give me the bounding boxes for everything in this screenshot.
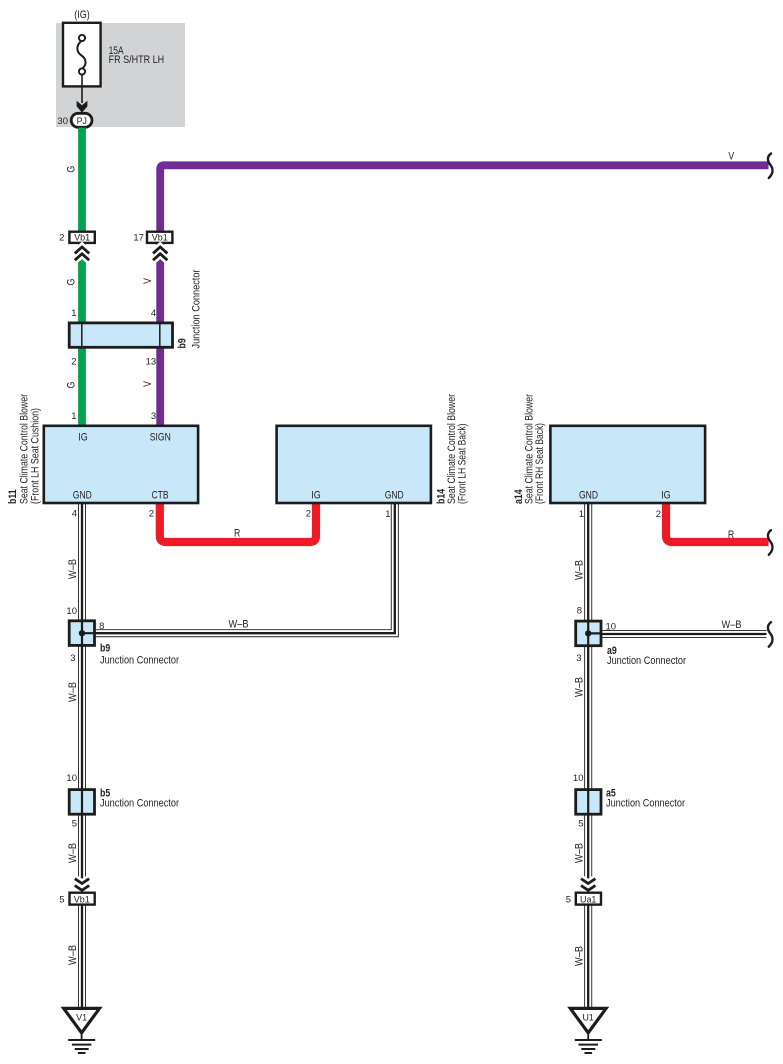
wire W-B from b14 GND to b9 xyxy=(95,502,395,633)
svg-text:2: 2 xyxy=(656,509,661,520)
svg-text:Junction Connector: Junction Connector xyxy=(191,269,203,348)
svg-text:U1: U1 xyxy=(583,1013,594,1024)
wire R left (CTB to IG of b14) xyxy=(160,501,316,542)
wire W-B right column xyxy=(584,502,592,1010)
wire G vertical xyxy=(78,128,86,427)
gray fuse panel xyxy=(56,23,185,127)
svg-text:Junction Connector: Junction Connector xyxy=(100,654,179,666)
junction connector b9 (top bar) xyxy=(69,269,202,348)
wire V vertical + horizontal xyxy=(160,165,768,426)
svg-text:W–B: W–B xyxy=(67,945,79,965)
svg-text:R: R xyxy=(728,529,734,541)
svg-text:V1: V1 xyxy=(76,1013,87,1024)
junction connector a9 (square) xyxy=(576,621,687,667)
svg-text:V: V xyxy=(142,381,154,387)
break mark R wire xyxy=(768,530,773,555)
svg-text:(Front LH Seat Cushion): (Front LH Seat Cushion) xyxy=(30,408,42,504)
svg-text:10: 10 xyxy=(573,773,584,784)
svg-text:10: 10 xyxy=(66,606,77,617)
svg-text:3: 3 xyxy=(576,653,581,664)
svg-text:IG: IG xyxy=(78,431,88,443)
svg-text:(IG): (IG) xyxy=(74,9,90,21)
svg-text:Vb1: Vb1 xyxy=(74,895,90,906)
svg-text:W–B: W–B xyxy=(573,946,585,966)
svg-text:1: 1 xyxy=(579,509,584,520)
svg-text:G: G xyxy=(66,166,78,173)
wire W-B left column xyxy=(78,502,86,1010)
svg-text:W–B: W–B xyxy=(573,677,585,697)
svg-text:Vb1: Vb1 xyxy=(152,232,168,243)
svg-text:8: 8 xyxy=(99,621,104,632)
connector Ua1 pin5 xyxy=(576,893,601,905)
svg-text:IG: IG xyxy=(661,489,671,501)
svg-text:W–B: W–B xyxy=(722,619,742,631)
svg-text:GND: GND xyxy=(73,489,92,501)
svg-text:b11: b11 xyxy=(7,489,19,504)
svg-text:2: 2 xyxy=(71,357,76,368)
svg-text:PJ: PJ xyxy=(77,116,88,127)
svg-text:W–B: W–B xyxy=(67,843,79,863)
svg-text:5: 5 xyxy=(59,895,64,906)
junction connector b5 (square) xyxy=(69,788,179,815)
svg-text:30: 30 xyxy=(57,116,68,127)
break mark V wire xyxy=(768,154,773,179)
svg-text:1: 1 xyxy=(71,308,76,319)
svg-text:13: 13 xyxy=(146,357,157,368)
break mark W-B wire xyxy=(768,622,773,647)
svg-text:R: R xyxy=(234,528,240,540)
svg-text:3: 3 xyxy=(151,411,156,422)
ECU box b14 Seat Climate Control Blower (Front LH Seat Back) xyxy=(277,394,469,504)
svg-text:17: 17 xyxy=(133,232,144,243)
svg-text:GND: GND xyxy=(385,489,404,501)
svg-text:2: 2 xyxy=(306,509,311,520)
svg-text:V: V xyxy=(142,278,154,284)
svg-text:SIGN: SIGN xyxy=(150,431,171,443)
svg-text:2: 2 xyxy=(59,232,64,243)
svg-text:Junction Connector: Junction Connector xyxy=(100,798,179,810)
svg-text:b9: b9 xyxy=(177,338,189,348)
svg-text:b9: b9 xyxy=(100,643,110,655)
junction connector b9 (square) xyxy=(69,621,179,667)
svg-text:Junction Connector: Junction Connector xyxy=(606,798,685,810)
svg-text:1: 1 xyxy=(71,411,76,422)
svg-text:Ua1: Ua1 xyxy=(580,895,596,906)
wire fuse to PJ with arrow xyxy=(81,75,83,103)
svg-text:W–B: W–B xyxy=(67,682,79,702)
svg-text:GND: GND xyxy=(579,489,598,501)
chevron above Ua1 bottom right xyxy=(581,879,595,891)
ECU box b11 Seat Climate Control Blower (Front LH Seat Cushion) xyxy=(7,394,198,504)
svg-text:10: 10 xyxy=(606,622,617,633)
connector Vb1 pin5 xyxy=(70,893,95,905)
svg-text:W–B: W–B xyxy=(229,619,249,631)
svg-text:1: 1 xyxy=(385,509,390,520)
svg-text:5: 5 xyxy=(578,819,583,830)
svg-text:(Front RH Seat Back): (Front RH Seat Back) xyxy=(534,423,546,504)
svg-text:W–B: W–B xyxy=(573,843,585,863)
svg-text:Vb1: Vb1 xyxy=(74,232,90,243)
svg-text:G: G xyxy=(66,279,78,286)
ECU box a14 Seat Climate Control Blower (Front RH Seat Back) xyxy=(513,394,705,504)
chevron below Vb1 right xyxy=(153,247,167,260)
svg-text:4: 4 xyxy=(72,509,77,520)
chevron below Vb1 left xyxy=(75,247,89,260)
svg-text:5: 5 xyxy=(72,819,77,830)
svg-text:W–B: W–B xyxy=(573,560,585,580)
connector Vb1 pin17 xyxy=(147,232,172,243)
svg-text:5: 5 xyxy=(566,895,571,906)
svg-text:G: G xyxy=(66,382,78,389)
svg-text:4: 4 xyxy=(151,308,156,319)
wire R right (IG of a14 to edge) xyxy=(666,501,769,542)
svg-text:(Front LH Seat Back): (Front LH Seat Back) xyxy=(457,424,469,505)
svg-text:8: 8 xyxy=(577,606,582,617)
svg-text:IG: IG xyxy=(311,489,321,501)
svg-text:Junction Connector: Junction Connector xyxy=(607,655,686,667)
connector Vb1 pin2 xyxy=(69,232,94,243)
svg-text:3: 3 xyxy=(70,653,75,664)
svg-text:10: 10 xyxy=(66,773,77,784)
node PJ xyxy=(71,113,92,127)
chevron above Vb1 bottom left xyxy=(75,879,89,891)
svg-text:CTB: CTB xyxy=(152,489,169,501)
svg-text:FR S/HTR LH: FR S/HTR LH xyxy=(109,54,165,66)
ground V1 xyxy=(64,1008,100,1053)
junction connector a5 (square) xyxy=(576,788,686,815)
wire W-B from a9 to edge xyxy=(600,630,767,638)
svg-text:V: V xyxy=(728,151,734,163)
svg-text:W–B: W–B xyxy=(67,559,79,579)
fuse 15A FR S/HTR LH xyxy=(63,23,164,87)
svg-text:2: 2 xyxy=(149,509,154,520)
ground U1 xyxy=(570,1008,606,1053)
